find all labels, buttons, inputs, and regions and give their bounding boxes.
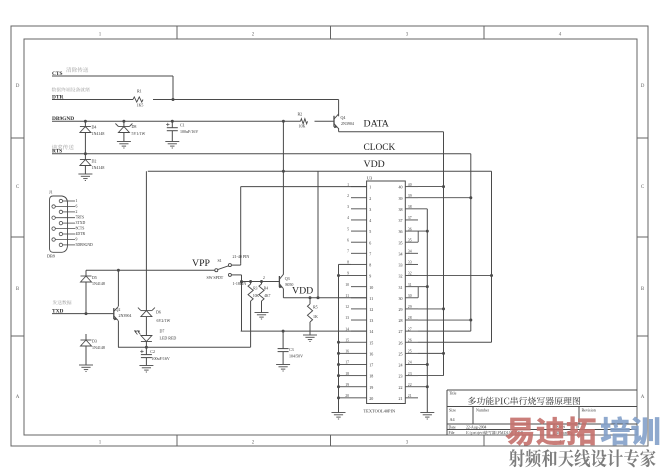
svg-text:21: 21 xyxy=(408,394,412,398)
svg-text:15: 15 xyxy=(369,340,373,345)
svg-text:10K: 10K xyxy=(299,124,306,129)
svg-text:1: 1 xyxy=(347,183,349,187)
svg-text:SW SPDT: SW SPDT xyxy=(207,275,224,280)
svg-text:5V1/1W: 5V1/1W xyxy=(132,131,146,136)
svg-text:36: 36 xyxy=(408,227,412,231)
svg-text:1: 1 xyxy=(369,185,371,190)
svg-text:35: 35 xyxy=(408,238,412,242)
svg-text:10K: 10K xyxy=(253,294,260,298)
svg-text:D2: D2 xyxy=(92,159,97,164)
svg-text:17: 17 xyxy=(369,363,373,368)
svg-text:11: 11 xyxy=(369,296,373,301)
svg-text:21-40 PIN: 21-40 PIN xyxy=(233,254,250,259)
svg-text:18: 18 xyxy=(345,372,349,376)
svg-text:100uF/16V: 100uF/16V xyxy=(152,356,170,361)
svg-text:37: 37 xyxy=(408,216,412,220)
svg-text:9: 9 xyxy=(347,272,349,276)
svg-text:17: 17 xyxy=(345,361,349,365)
svg-text:Q3: Q3 xyxy=(285,276,290,281)
svg-text:28: 28 xyxy=(408,316,412,320)
svg-text:Title: Title xyxy=(449,391,457,396)
svg-text:4K7: 4K7 xyxy=(264,294,270,298)
svg-text:D6: D6 xyxy=(156,309,161,314)
svg-text:D5: D5 xyxy=(92,275,97,280)
svg-text:2N3904: 2N3904 xyxy=(119,313,132,318)
svg-text:R4: R4 xyxy=(264,286,268,290)
svg-text:File: File xyxy=(449,431,455,435)
svg-text:33: 33 xyxy=(408,261,412,265)
svg-text:VPP: VPP xyxy=(192,258,211,269)
svg-text:24: 24 xyxy=(408,361,412,365)
svg-text:D3: D3 xyxy=(92,339,97,344)
svg-text:10: 10 xyxy=(345,283,349,287)
svg-text:12: 12 xyxy=(369,307,373,312)
svg-text:2: 2 xyxy=(263,276,265,280)
svg-text:39: 39 xyxy=(399,196,403,201)
svg-text:7: 7 xyxy=(347,250,349,254)
svg-text:A4: A4 xyxy=(450,417,456,422)
svg-text:A: A xyxy=(16,395,20,400)
svg-text:29: 29 xyxy=(399,307,403,312)
svg-text:S1: S1 xyxy=(218,258,222,263)
svg-text:9: 9 xyxy=(76,238,78,242)
svg-text:4: 4 xyxy=(347,216,349,220)
svg-text:3: 3 xyxy=(347,205,349,209)
svg-text:Q2: Q2 xyxy=(116,307,121,312)
svg-text:Q4: Q4 xyxy=(341,115,346,120)
svg-text:1-18PIN: 1-18PIN xyxy=(233,281,247,286)
svg-text:33: 33 xyxy=(399,263,403,268)
svg-text:LED RED: LED RED xyxy=(160,335,177,340)
svg-text:J1: J1 xyxy=(49,190,53,195)
svg-text:31: 31 xyxy=(408,283,412,287)
svg-text:Number: Number xyxy=(476,407,490,412)
svg-text:1N4148: 1N4148 xyxy=(92,165,105,170)
svg-text:DTR: DTR xyxy=(52,94,63,100)
svg-text:22: 22 xyxy=(408,383,412,387)
svg-text:25: 25 xyxy=(408,350,412,354)
svg-text:1N4148: 1N4148 xyxy=(92,131,105,136)
svg-text:11: 11 xyxy=(345,294,349,298)
svg-text:40: 40 xyxy=(408,183,412,187)
svg-text:2N3904: 2N3904 xyxy=(341,121,354,126)
svg-text:8: 8 xyxy=(369,263,371,268)
svg-text:6: 6 xyxy=(369,240,371,245)
svg-text:1N4148: 1N4148 xyxy=(92,345,105,350)
svg-text:C2: C2 xyxy=(150,349,155,354)
svg-text:CTS: CTS xyxy=(52,71,63,77)
svg-text:30: 30 xyxy=(399,296,403,301)
svg-text:38: 38 xyxy=(408,205,412,209)
svg-text:19: 19 xyxy=(369,385,373,390)
svg-text:Revision: Revision xyxy=(582,407,596,412)
svg-text:D4: D4 xyxy=(92,125,97,130)
svg-text:7: 7 xyxy=(369,251,371,256)
svg-text:1K: 1K xyxy=(313,314,318,319)
svg-text:35: 35 xyxy=(399,240,403,245)
svg-text:R3: R3 xyxy=(253,286,257,290)
svg-text:D7: D7 xyxy=(160,328,165,333)
svg-text:40: 40 xyxy=(399,185,403,190)
svg-text:7RTS: 7RTS xyxy=(76,216,85,220)
svg-text:6: 6 xyxy=(76,205,78,209)
svg-text:6V2/1W: 6V2/1W xyxy=(157,318,171,323)
svg-text:VDD: VDD xyxy=(292,286,313,297)
svg-text:22: 22 xyxy=(399,385,403,390)
svg-text:VDD: VDD xyxy=(364,159,385,170)
svg-text:6: 6 xyxy=(347,238,349,242)
svg-text:34: 34 xyxy=(399,251,403,256)
svg-text:A: A xyxy=(641,395,645,400)
svg-text:21: 21 xyxy=(399,396,403,401)
svg-text:Date: Date xyxy=(449,425,456,429)
svg-text:C3: C3 xyxy=(289,347,294,352)
svg-text:TEXTOOL40PIN: TEXTOOL40PIN xyxy=(364,409,396,414)
svg-text:16: 16 xyxy=(369,351,373,356)
svg-text:U3: U3 xyxy=(367,176,373,181)
svg-text:26: 26 xyxy=(399,340,403,345)
svg-text:10: 10 xyxy=(369,285,373,290)
svg-text:R1: R1 xyxy=(137,89,142,94)
svg-text:25: 25 xyxy=(399,351,403,356)
svg-text:R5: R5 xyxy=(313,304,318,309)
svg-text:DB9: DB9 xyxy=(47,254,55,259)
svg-text:14: 14 xyxy=(345,327,349,331)
svg-text:14: 14 xyxy=(369,329,373,334)
svg-text:22-Aug-2004: 22-Aug-2004 xyxy=(466,425,487,429)
svg-text:12: 12 xyxy=(345,305,349,309)
svg-text:CLOCK: CLOCK xyxy=(364,143,396,153)
svg-text:23: 23 xyxy=(399,374,403,379)
svg-text:13: 13 xyxy=(345,316,349,320)
svg-text:5: 5 xyxy=(369,229,371,234)
svg-text:4: 4 xyxy=(369,218,371,223)
svg-text:2: 2 xyxy=(369,196,371,201)
svg-text:1: 1 xyxy=(76,199,78,203)
svg-text:29: 29 xyxy=(408,305,412,309)
svg-text:32: 32 xyxy=(408,272,412,276)
svg-text:RTS: RTS xyxy=(52,149,62,155)
svg-text:31: 31 xyxy=(399,285,403,290)
svg-text:2: 2 xyxy=(347,194,349,198)
svg-text:3: 3 xyxy=(369,207,371,212)
svg-text:24: 24 xyxy=(399,363,403,368)
svg-text:DATA: DATA xyxy=(364,118,389,129)
svg-text:5: 5 xyxy=(347,227,349,231)
svg-text:15: 15 xyxy=(345,338,349,342)
svg-text:16: 16 xyxy=(345,350,349,354)
svg-text:20: 20 xyxy=(369,396,373,401)
svg-text:27: 27 xyxy=(399,329,403,334)
svg-text:C1: C1 xyxy=(180,123,185,128)
svg-text:1N4148: 1N4148 xyxy=(92,281,105,286)
svg-text:20: 20 xyxy=(345,394,349,398)
svg-text:D: D xyxy=(16,84,20,89)
svg-text:9: 9 xyxy=(369,274,371,279)
svg-text:5DB9GND: 5DB9GND xyxy=(76,243,94,247)
svg-text:8050: 8050 xyxy=(285,282,293,287)
svg-text:27: 27 xyxy=(408,327,412,331)
svg-text:DB9GND: DB9GND xyxy=(52,116,74,122)
svg-text:TXD: TXD xyxy=(52,308,63,314)
svg-text:39: 39 xyxy=(408,194,412,198)
svg-text:3TXD: 3TXD xyxy=(76,221,86,225)
svg-text:13: 13 xyxy=(369,318,373,323)
svg-text:4DTR: 4DTR xyxy=(76,232,86,236)
svg-text:100uF/16V: 100uF/16V xyxy=(180,129,198,134)
svg-text:23: 23 xyxy=(408,372,412,376)
svg-text:Size: Size xyxy=(449,407,456,412)
svg-text:D8: D8 xyxy=(132,124,137,129)
svg-text:30: 30 xyxy=(408,294,412,298)
svg-text:R2: R2 xyxy=(298,111,303,116)
svg-text:37: 37 xyxy=(399,218,403,223)
svg-text:18: 18 xyxy=(369,374,373,379)
svg-text:26: 26 xyxy=(408,338,412,342)
svg-text:104/50V: 104/50V xyxy=(289,353,303,358)
svg-text:1K5: 1K5 xyxy=(137,103,144,108)
svg-text:28: 28 xyxy=(399,318,403,323)
svg-text:D: D xyxy=(641,84,645,89)
svg-text:34: 34 xyxy=(408,250,412,254)
svg-text:8CTS: 8CTS xyxy=(76,227,85,231)
svg-text:19: 19 xyxy=(345,383,349,387)
svg-text:38: 38 xyxy=(399,207,403,212)
svg-text:2: 2 xyxy=(76,210,78,214)
svg-text:8: 8 xyxy=(347,261,349,265)
svg-text:36: 36 xyxy=(399,229,403,234)
svg-text:32: 32 xyxy=(399,274,403,279)
